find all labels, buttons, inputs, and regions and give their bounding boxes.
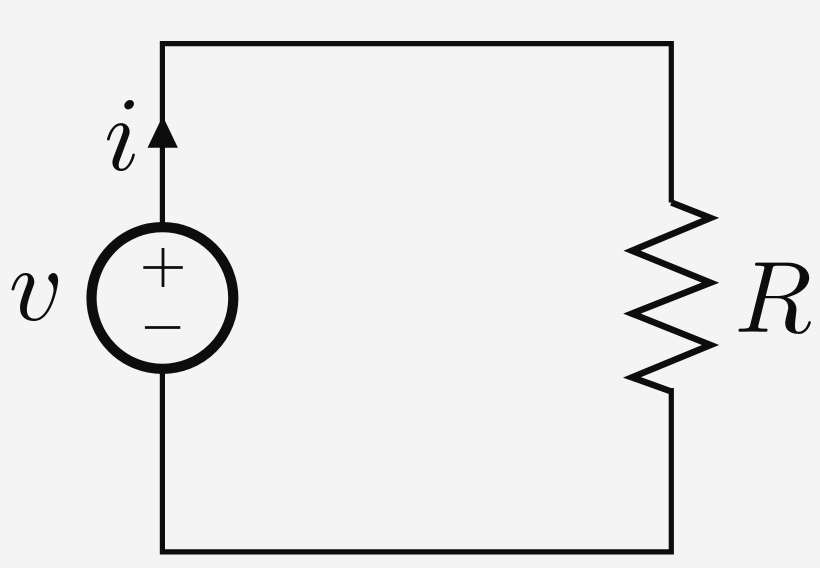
plus sign xyxy=(143,248,183,287)
resistor R zigzag xyxy=(632,203,711,392)
voltage source V1 xyxy=(91,227,233,369)
wire bottom loop xyxy=(162,368,671,552)
current arrow i xyxy=(148,116,178,148)
minus sign xyxy=(145,326,180,329)
label R xyxy=(739,263,811,334)
label i xyxy=(107,100,135,171)
wire top-left-right loop xyxy=(162,44,671,228)
label v xyxy=(12,273,59,321)
